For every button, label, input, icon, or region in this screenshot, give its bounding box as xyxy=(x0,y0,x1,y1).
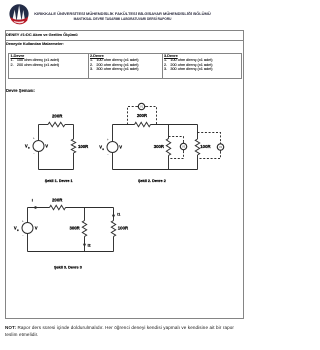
wire C3 bottom xyxy=(28,251,114,253)
svg-text:300R: 300R xyxy=(70,225,81,230)
wire C2 middle branch xyxy=(168,125,170,170)
resistor 200R C1 xyxy=(48,122,65,126)
svg-text:i2: i2 xyxy=(88,244,91,248)
svg-text:100R: 100R xyxy=(200,144,211,149)
current arrow i2 C3 xyxy=(83,240,86,248)
svg-text:i1: i1 xyxy=(117,213,120,217)
header title line 1 xyxy=(33,11,212,16)
materials table xyxy=(8,53,242,79)
wire C3 left xyxy=(27,208,29,252)
header title line 2 xyxy=(33,17,212,21)
svg-text:-: - xyxy=(22,232,24,237)
wire C3 right xyxy=(113,208,115,252)
voltage source Vs C1 xyxy=(33,141,44,152)
circuits svg xyxy=(0,0,247,350)
university logo xyxy=(0,0,40,30)
svg-text:100R: 100R xyxy=(118,225,129,230)
materials heading xyxy=(6,42,64,46)
voltmeter V1 xyxy=(137,103,146,109)
DENEY title row divider xyxy=(5,40,244,41)
voltage source Vs C3 xyxy=(22,223,33,234)
svg-text:s: s xyxy=(102,147,104,151)
wire C1 bottom xyxy=(39,169,74,171)
svg-text:200R: 200R xyxy=(52,113,63,118)
table column 1 xyxy=(11,54,60,67)
resistor 100R C1 xyxy=(71,139,75,153)
svg-text:+: + xyxy=(22,220,24,224)
voltmeter V3 xyxy=(180,142,186,151)
wire C2 top xyxy=(113,124,198,126)
svg-text:V: V xyxy=(119,145,122,150)
svg-text:200R: 200R xyxy=(137,113,148,118)
svg-text:+: + xyxy=(33,137,35,141)
svg-text:V1: V1 xyxy=(140,105,144,108)
wire C2 left xyxy=(112,125,114,170)
resistor 100R C3 xyxy=(111,221,115,237)
outer report box xyxy=(5,30,244,319)
table column 3 xyxy=(164,54,213,71)
wire C1 top xyxy=(39,124,74,126)
wire C2 bottom xyxy=(113,169,198,171)
wire C1 left xyxy=(38,125,40,170)
svg-text:Şekil 3. Devre 3: Şekil 3. Devre 3 xyxy=(54,266,82,270)
resistor 300R C3 xyxy=(82,221,86,237)
svg-text:V: V xyxy=(45,144,48,149)
resistor 300R C2 xyxy=(166,139,170,156)
current arrow i C3 xyxy=(30,206,38,209)
voltmeter V2 xyxy=(217,142,223,151)
dashed leads V2 xyxy=(198,133,221,159)
svg-text:-: - xyxy=(107,151,109,156)
wire C3 top xyxy=(28,207,114,209)
svg-text:200R: 200R xyxy=(52,197,63,202)
voltage source Vs C2 xyxy=(107,142,118,153)
dashed leads V3 xyxy=(169,137,184,159)
svg-text:-: - xyxy=(33,150,35,155)
current arrow i1 C3 xyxy=(112,211,115,219)
svg-text:Şekil 1. Devre 1: Şekil 1. Devre 1 xyxy=(45,179,73,183)
wire C2 right xyxy=(197,125,199,170)
table column 2 xyxy=(90,54,139,71)
footer note xyxy=(5,324,245,338)
wire C1 right xyxy=(73,125,75,170)
wire C3 middle branch xyxy=(84,208,86,252)
svg-text:i: i xyxy=(32,199,33,203)
dashed leads V1 xyxy=(128,107,157,125)
schematic heading xyxy=(6,88,35,93)
svg-text:Şekil 2. Devre 2: Şekil 2. Devre 2 xyxy=(138,179,166,183)
svg-text:+: + xyxy=(107,138,109,142)
svg-text:s: s xyxy=(17,228,19,232)
svg-text:s: s xyxy=(28,146,30,150)
svg-text:V: V xyxy=(35,226,38,231)
resistor 200R C3 xyxy=(50,205,66,209)
svg-text:V3: V3 xyxy=(182,145,186,148)
svg-text:300R: 300R xyxy=(154,144,165,149)
DENEY row text xyxy=(6,32,78,37)
resistor 200R C2 xyxy=(135,122,151,126)
resistor 100R C2 xyxy=(195,139,199,155)
svg-text:100R: 100R xyxy=(78,144,89,149)
svg-text:V2: V2 xyxy=(219,146,223,149)
